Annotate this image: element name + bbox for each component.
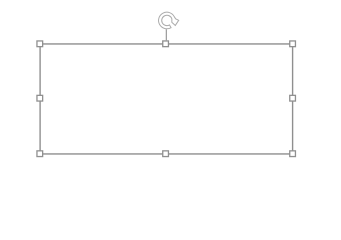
handle top-middle [163,41,169,47]
handle middle-left [37,95,43,101]
rotation handle icon [159,12,179,29]
rotation connector line [165,29,167,40]
handle bottom-left [37,151,43,157]
handle bottom-right [290,151,296,157]
handle bottom-middle [163,151,169,157]
handle middle-right [290,95,296,101]
handle top-left [37,41,43,47]
selection rectangle border [40,44,293,154]
handle top-right [290,41,296,47]
